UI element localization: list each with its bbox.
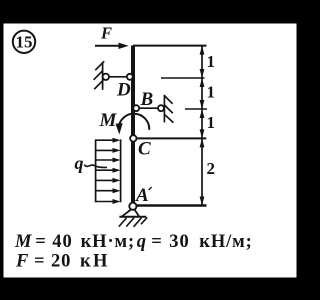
dimension tick at D level bbox=[161, 77, 205, 79]
force F arrow bbox=[95, 43, 129, 49]
svg-text:кН/м;: кН/м; bbox=[199, 232, 252, 252]
moment M arrowhead bbox=[116, 123, 123, 134]
beam AD (vertical column) bbox=[131, 46, 135, 204]
svg-text:=: = bbox=[34, 251, 45, 271]
svg-text:20: 20 bbox=[51, 251, 71, 271]
svg-text:1: 1 bbox=[207, 52, 216, 71]
svg-text:D: D bbox=[116, 79, 131, 100]
dimension line (vertical) bbox=[201, 46, 203, 206]
ground hatching bbox=[119, 217, 147, 226]
pin at wall (B link) bbox=[158, 105, 164, 111]
given data text line 1 bbox=[14, 232, 253, 252]
C level line to dimension line bbox=[137, 137, 207, 139]
bottom line from A to dimension line bbox=[134, 204, 207, 206]
distributed load q box bbox=[96, 139, 121, 202]
svg-text:M: M bbox=[99, 110, 118, 131]
white content area bbox=[4, 24, 297, 278]
svg-text:q: q bbox=[75, 153, 84, 173]
problem number badge circle 15 bbox=[13, 31, 35, 53]
svg-text:F: F bbox=[100, 23, 112, 42]
svg-text:M: M bbox=[14, 232, 32, 252]
svg-text:C: C bbox=[138, 139, 151, 160]
svg-text:F: F bbox=[15, 251, 29, 271]
svg-text:1: 1 bbox=[207, 113, 216, 132]
dimension arrows bbox=[200, 46, 205, 206]
svg-text:q: q bbox=[137, 232, 147, 252]
svg-text:=: = bbox=[35, 232, 46, 252]
pin at wall (D link) bbox=[103, 74, 109, 80]
q leader squiggle bbox=[84, 165, 107, 168]
svg-text:кН: кН bbox=[80, 251, 110, 271]
svg-text:=: = bbox=[151, 232, 162, 252]
moment M arc bbox=[119, 114, 150, 130]
top horizontal line to dimension line bbox=[133, 45, 207, 47]
support at B: wall with hatching bbox=[164, 95, 173, 123]
svg-text:30: 30 bbox=[169, 232, 189, 252]
q arrows bbox=[96, 140, 114, 201]
pin at beam (B) bbox=[133, 105, 139, 111]
given data text line 2 bbox=[15, 251, 110, 271]
svg-text:B: B bbox=[140, 89, 154, 110]
small prime mark near A bbox=[149, 187, 152, 190]
svg-text:A: A bbox=[135, 185, 149, 206]
svg-text:кН·м;: кН·м; bbox=[81, 232, 135, 252]
support at D: wall with hatching bbox=[94, 61, 105, 90]
pin at A bbox=[129, 203, 136, 210]
svg-text:1: 1 bbox=[207, 83, 216, 102]
link rod B bbox=[139, 107, 158, 109]
svg-text:2: 2 bbox=[207, 159, 216, 178]
pin at C bbox=[130, 135, 136, 141]
svg-text:40: 40 bbox=[52, 232, 72, 252]
pin at beam (D) bbox=[127, 74, 133, 80]
svg-text:15: 15 bbox=[16, 33, 33, 52]
dimension tick at B level bbox=[185, 108, 207, 110]
pinned support triangle at A bbox=[122, 209, 139, 217]
link rod D bbox=[109, 76, 127, 78]
ground line bbox=[119, 216, 146, 218]
